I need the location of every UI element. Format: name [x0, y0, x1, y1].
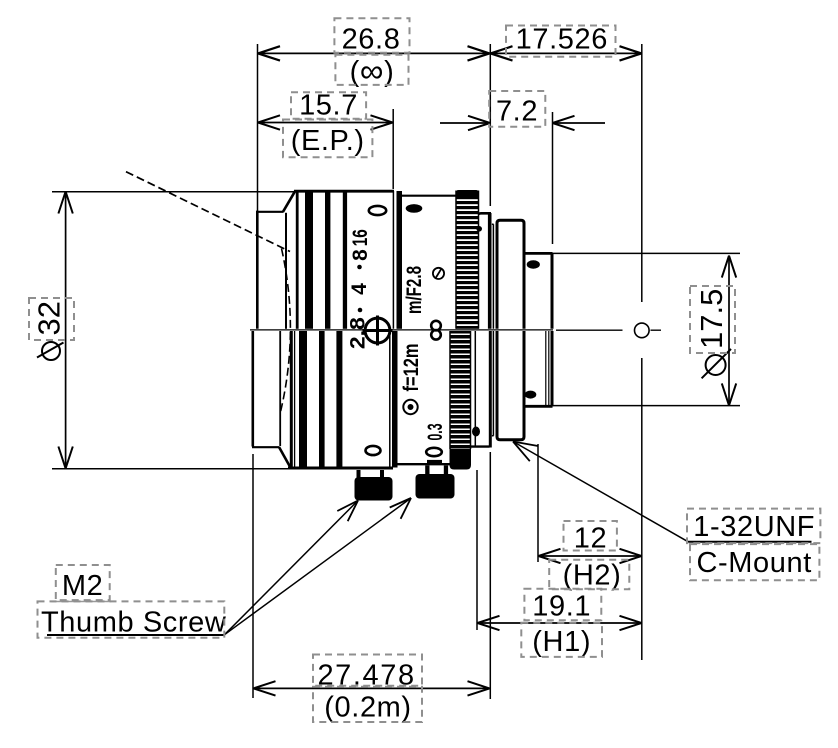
- svg-text:17.526: 17.526: [516, 23, 608, 55]
- svg-text:15.7: 15.7: [299, 90, 358, 122]
- leader to thumb screw 2: [225, 498, 412, 635]
- svg-text:(H2): (H2): [563, 560, 622, 592]
- dashed box 1-32UNF: [687, 509, 820, 543]
- extension line x552: [552, 112, 554, 244]
- svg-text:(0.2m): (0.2m): [324, 692, 411, 724]
- dashed box (H1): [521, 623, 602, 657]
- dimension 15.7 line: [258, 122, 393, 124]
- dia17.5 phi symbol: [702, 349, 731, 378]
- svg-text:26.8: 26.8: [342, 23, 401, 55]
- svg-text:(H1): (H1): [532, 626, 591, 658]
- knurled ring lower: [450, 331, 472, 470]
- extension line x257 front: [257, 44, 259, 211]
- dashed box 17.526: [506, 26, 616, 57]
- focus barrel upper: [294, 191, 394, 329]
- dimension 12 H2 line: [539, 555, 642, 557]
- svg-text:17.5: 17.5: [694, 289, 729, 349]
- svg-text:0.3: 0.3: [424, 424, 447, 441]
- dashed box 19.1: [524, 589, 601, 621]
- thumb screw 1: [355, 470, 393, 501]
- extension line x538 H2: [537, 444, 539, 562]
- svg-text:Thumb Screw: Thumb Screw: [41, 606, 227, 638]
- thumb screw 2: [416, 466, 455, 499]
- dimension 19.1 H1 line: [478, 622, 642, 624]
- focus index circle-cross symbol: [363, 316, 393, 346]
- extension line x490 flange top: [489, 44, 491, 206]
- dashed ray line: [126, 172, 290, 252]
- center line right segments: [556, 329, 661, 331]
- dia32 phi symbol: [37, 342, 64, 360]
- circled dot symbol: [403, 400, 417, 414]
- svg-text:7.2: 7.2: [496, 96, 538, 128]
- dashed box 15.7: [291, 92, 366, 118]
- underline M2: [51, 601, 111, 603]
- aperture ring lower bottom edge: [398, 463, 451, 465]
- spacer ring lower: [492, 331, 494, 436]
- focus tick marks: [427, 460, 442, 464]
- dimension 27.478 line: [254, 687, 490, 689]
- dashed box (inf): [335, 55, 408, 85]
- mount block B lower: [497, 331, 524, 440]
- leader to thumb screw 1: [225, 501, 359, 635]
- extension line y469 dia32 bottom: [52, 468, 290, 470]
- thread C lower: [524, 331, 552, 406]
- rear cylinder A upper: [476, 213, 491, 329]
- thread C upper: [524, 253, 552, 328]
- svg-text:32: 32: [32, 301, 67, 335]
- dashed box 26.8: [334, 18, 409, 52]
- extension line x477 H1: [476, 470, 478, 630]
- extension line x642 image plane bottom: [641, 358, 643, 660]
- boundary focus/aperture lower: [389, 331, 391, 467]
- aperture scale dots: [357, 265, 362, 270]
- dimension dia32 vertical line: [65, 192, 67, 469]
- dashed box 7.2: [489, 91, 545, 127]
- dashed box dia32: [29, 298, 74, 340]
- svg-text:(∞): (∞): [350, 52, 395, 89]
- dashed box Thumb Screw: [38, 601, 225, 637]
- leader to C-mount: [513, 442, 688, 542]
- extension line y192 dia32 top: [52, 191, 294, 193]
- front ring lower: [252, 331, 290, 467]
- mount block B upper: [497, 220, 524, 328]
- extension line x393 EP: [392, 109, 394, 189]
- dashed box M2: [56, 565, 110, 600]
- dashed box 27.478: [313, 655, 422, 686]
- center line through lens: [250, 329, 553, 331]
- screw hole oval upper: [369, 206, 386, 215]
- screw hole oval lower: [366, 446, 381, 455]
- extension line x490 flange bottom: [489, 452, 491, 699]
- dashed box (H2): [549, 560, 629, 590]
- svg-text:f=12m: f=12m: [400, 344, 423, 392]
- dimension 7.2 line: [440, 122, 605, 124]
- aperture ring upper: [402, 195, 456, 197]
- extension line x642 image plane top: [641, 44, 643, 302]
- boundary line focus/aperture upper: [392, 191, 394, 329]
- knurled ring upper: [456, 190, 479, 329]
- svg-text:16: 16: [349, 229, 372, 246]
- dashed front element arc: [280, 249, 290, 415]
- screw circle symbol: [433, 268, 444, 279]
- dia17.5 extension top: [551, 252, 740, 254]
- underline Thumb Screw: [47, 634, 225, 636]
- dashed box C-Mount: [690, 544, 819, 580]
- focus barrel lower: [288, 331, 393, 468]
- extension line x253 front 0.2m: [252, 454, 254, 698]
- dashed box dia17.5: [690, 286, 735, 353]
- rear cylinder A lower: [471, 331, 491, 448]
- dia17.5 extension bottom: [526, 405, 740, 407]
- dashed box 12: [564, 521, 617, 551]
- svg-text:4: 4: [348, 283, 371, 295]
- svg-text:(E.P.): (E.P.): [291, 125, 365, 157]
- infinity symbol rotated: [431, 321, 441, 340]
- thread relief lines lower: [546, 331, 549, 405]
- svg-text:1-32UNF: 1-32UNF: [693, 511, 815, 543]
- dimension 17.526 line: [491, 52, 642, 54]
- dimension 26.8 line: [258, 52, 490, 54]
- dashed box (E.P.): [283, 120, 372, 158]
- focus scale oval 0: [426, 448, 442, 456]
- dimension dia17.5 vertical line: [728, 256, 730, 406]
- center mark circle at image plane: [635, 323, 650, 338]
- svg-text:C-Mount: C-Mount: [696, 547, 811, 579]
- svg-text:19.1: 19.1: [532, 591, 591, 623]
- dashed box (0.2m): [313, 687, 422, 722]
- svg-text:M2: M2: [62, 570, 104, 602]
- svg-text:8: 8: [349, 249, 372, 261]
- front ring upper: [256, 191, 295, 329]
- set screw black oval upper: [406, 204, 423, 213]
- spacer ring upper: [492, 224, 494, 328]
- svg-text:m/F2.8: m/F2.8: [403, 266, 426, 314]
